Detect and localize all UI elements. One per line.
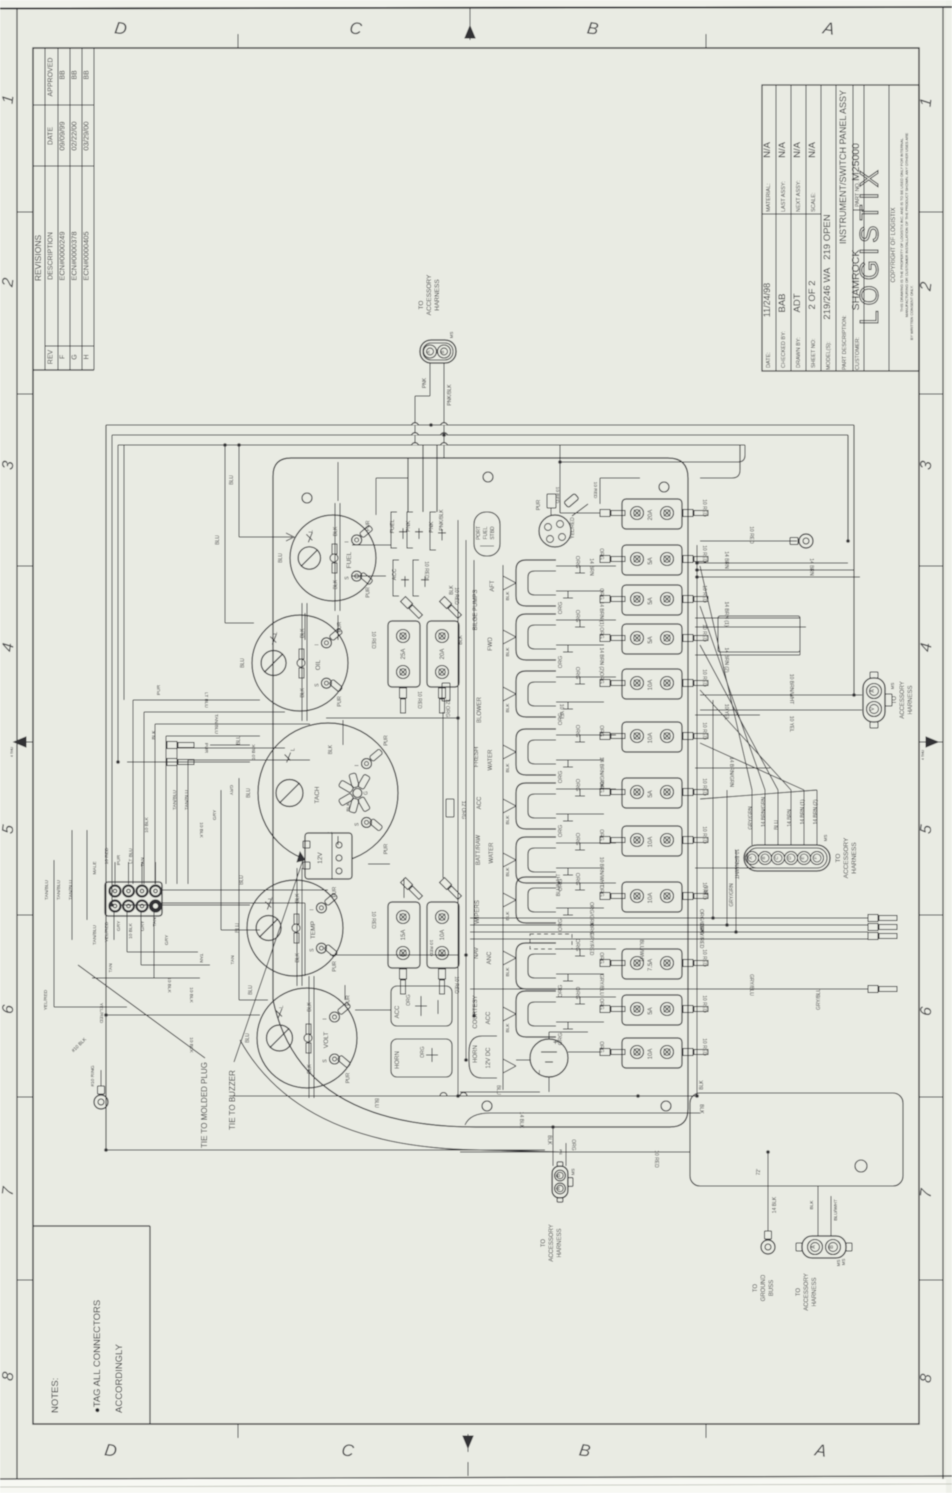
svg-text:ORG: ORG — [574, 610, 580, 623]
svg-text:10A: 10A — [648, 733, 654, 744]
notes box frame — [33, 1226, 150, 1424]
svg-text:TAN/BLU: TAN/BLU — [184, 790, 190, 810]
svg-text:GRY/GRN: GRY/GRN — [729, 883, 735, 907]
border centerline arrow bottom — [463, 1436, 473, 1448]
left harness horizontal stubs — [133, 700, 310, 760]
wire PNK from top connector — [415, 363, 430, 445]
6-pin connector wire labels — [748, 797, 828, 842]
wire 10 RED at CB7 — [598, 778, 707, 796]
circuit breaker 10A lower pair — [427, 878, 462, 994]
svg-text:ORG: ORG — [598, 588, 604, 600]
svg-text:FUEL: FUEL — [390, 519, 396, 533]
svg-text:N/A: N/A — [762, 141, 773, 158]
svg-text:TO: TO — [418, 301, 425, 310]
gauge TACH — [246, 723, 398, 863]
wire from loop to breaker CB1 — [560, 500, 600, 513]
svg-text:BUSS: BUSS — [769, 1280, 775, 1296]
svg-text:TO: TO — [892, 696, 898, 705]
svg-text:L: L — [290, 748, 296, 751]
svg-text:BLU: BLU — [248, 985, 254, 995]
svg-text:10 RED: 10 RED — [701, 669, 707, 687]
title block CHECKED BY cell — [777, 293, 788, 368]
zone tick marks — [17, 211, 33, 213]
svg-text:BLU/WHT: BLU/WHT — [833, 1199, 839, 1221]
svg-text:A: A — [821, 18, 836, 39]
svg-text:N/A: N/A — [807, 141, 818, 158]
svg-text:BLK: BLK — [333, 526, 339, 536]
svg-text:ORG: ORG — [558, 656, 564, 669]
svg-text:14 BRN (2): 14 BRN (2) — [723, 647, 729, 672]
wire 10 RED at CB3 — [598, 585, 707, 603]
svg-text:10 BRN/WHT: 10 BRN/WHT — [598, 857, 604, 887]
circuit breaker CB9 10A — [600, 882, 708, 912]
svg-text:TAN: TAN — [230, 955, 236, 965]
title block DRAWN BY cell — [792, 293, 803, 368]
bottom wire 14 BLK — [465, 1104, 704, 1129]
svg-text:PORT: PORT — [476, 526, 482, 540]
svg-text:ACCESSORY: ACCESSORY — [426, 274, 433, 315]
svg-text:MS: MS — [449, 332, 454, 339]
svg-text:ORG: ORG — [406, 994, 412, 1006]
title block copyright text — [891, 132, 914, 340]
svg-text:14 BRN: 14 BRN — [787, 809, 793, 827]
svg-text:FUEL: FUEL — [483, 526, 489, 539]
wire CB1 feed 10 RED — [592, 478, 640, 504]
molded plug wire labels upper — [44, 847, 146, 900]
switch function label FRESH WATER — [474, 747, 494, 771]
svg-text:10 RED: 10 RED — [701, 826, 707, 844]
svg-text:HORN: HORN — [473, 1045, 479, 1063]
svg-text:5A: 5A — [648, 597, 654, 604]
svg-text:HORN: HORN — [395, 1051, 401, 1069]
gauge OIL — [240, 603, 348, 721]
title block frame — [762, 85, 919, 371]
svg-text:D: D — [103, 1440, 118, 1461]
wire labels TAN/BLU GRY — [144, 684, 234, 838]
accessory ACC box — [391, 986, 452, 1026]
svg-text:HARNESS: HARNESS — [908, 685, 914, 714]
svg-text:TEMP: TEMP — [310, 921, 317, 939]
leader TIE TO BUZZER — [228, 852, 305, 1130]
svg-text:10A: 10A — [648, 1049, 654, 1060]
svg-text:BY WRITTEN CONSENT ONLY.: BY WRITTEN CONSENT ONLY. — [910, 285, 914, 340]
bottom 2-pin connector label — [541, 1224, 563, 1262]
feeder wires from top loop to inline connectors — [408, 445, 437, 512]
svg-text:PUR: PUR — [384, 843, 390, 854]
svg-text:E: E — [800, 856, 805, 859]
svg-text:ORG: ORG — [598, 829, 604, 841]
revision row F — [58, 70, 67, 359]
svg-text:10 RED: 10 RED — [104, 847, 110, 864]
svg-text:A: A — [813, 1440, 828, 1461]
svg-text:FRESH: FRESH — [474, 747, 480, 767]
gauge interconnect wires — [305, 462, 443, 1010]
svg-text:TAN: TAN — [152, 917, 158, 927]
svg-text:BLU: BLU — [704, 885, 710, 895]
svg-text:10 BRN/WHT: 10 BRN/WHT — [788, 674, 794, 704]
circuit breaker 20A left pair — [427, 597, 462, 713]
svg-text:TAN: TAN — [140, 857, 146, 867]
svg-text:CUSTOMER:: CUSTOMER: — [855, 337, 861, 370]
svg-text:10A: 10A — [648, 837, 654, 848]
svg-text:PNK: PNK — [406, 520, 412, 532]
svg-text:BLU/WHT: BLU/WHT — [556, 874, 562, 897]
svg-text:B: B — [440, 350, 445, 353]
svg-text:10 RED: 10 RED — [701, 722, 707, 740]
svg-text:PNK/BLK: PNK/BLK — [439, 509, 445, 531]
svg-text:14 BRN (1): 14 BRN (1) — [800, 799, 806, 824]
wire BLU into VOLT gauge — [106, 985, 260, 1015]
svg-text:PUR: PUR — [203, 743, 209, 754]
ignition switch lug — [560, 445, 579, 508]
svg-text:CHECKED BY:: CHECKED BY: — [781, 331, 787, 368]
circuit breaker 15A — [388, 878, 423, 994]
inline lugs on ORG feeders — [442, 683, 454, 817]
svg-text:PNK/BLK: PNK/BLK — [447, 384, 453, 406]
svg-text:TAN: TAN — [108, 963, 114, 973]
wire 10 RED at CB5 — [598, 669, 707, 687]
svg-text:FWD: FWD — [488, 637, 494, 651]
svg-text:−: − — [535, 1069, 544, 1074]
svg-text:WATER: WATER — [488, 749, 494, 771]
svg-text:14 BRN/GRN: 14 BRN/GRN — [598, 757, 604, 787]
revision row G — [70, 70, 79, 360]
svg-text:20A: 20A — [648, 510, 654, 521]
connector 2-pin right TO ACCESSORY HARNESS — [863, 672, 895, 728]
svg-text:TO: TO — [541, 1239, 547, 1248]
svg-text:10 BLK: 10 BLK — [144, 816, 150, 833]
svg-text:14 BRN: 14 BRN — [808, 558, 814, 576]
svg-text:MANUFACTURING OR CUSTOMER INST: MANUFACTURING OR CUSTOMER INSTALLATION O… — [905, 132, 909, 317]
svg-text:5A: 5A — [648, 557, 654, 564]
stadium label PORT FUEL STBD — [474, 512, 500, 556]
svg-text:TAN/BLU: TAN/BLU — [68, 880, 74, 900]
svg-text:BLK: BLK — [505, 911, 511, 921]
leader TIE TO MOLDED PLUG — [78, 965, 209, 1148]
svg-text:10 BLK: 10 BLK — [188, 1037, 194, 1054]
svg-text:BLU: BLU — [774, 820, 780, 830]
wires molded plug to regulator — [162, 890, 328, 976]
switch function label BATT/RAW WATER — [476, 835, 495, 866]
border centerline arrow right — [926, 737, 938, 747]
svg-text:5M: 5M — [558, 1149, 563, 1155]
svg-text:ORG: ORG — [558, 825, 564, 838]
svg-text:ORG: ORG — [598, 548, 604, 560]
dashed box GRY/RED above SW8 — [530, 934, 572, 949]
svg-text:L: L — [273, 632, 279, 635]
svg-text:BLK: BLK — [458, 635, 464, 645]
svg-text:PNK: PNK — [429, 521, 435, 533]
terminal lugs right stack — [868, 915, 897, 940]
svg-text:N/A: N/A — [777, 141, 788, 158]
svg-text:ADT: ADT — [792, 293, 803, 312]
switch SW3 blower — [516, 667, 616, 726]
svg-text:L: L — [279, 1005, 285, 1008]
svg-text:DATE:: DATE: — [766, 352, 772, 368]
svg-text:BLU: BLU — [373, 1098, 379, 1108]
loop left vertical wires — [106, 425, 124, 1150]
wire PNK/BLK from top connector — [444, 363, 453, 458]
svg-text:10A: 10A — [648, 893, 654, 904]
wire 10 RED at CB2 — [598, 545, 707, 563]
svg-text:2 OF 2: 2 OF 2 — [807, 280, 818, 309]
wire BLU into FUEL gauge — [229, 445, 294, 541]
svg-text:PNK: PNK — [422, 377, 428, 388]
svg-text:G: G — [72, 354, 79, 359]
svg-text:●TAG ALL CONNECTORS: ●TAG ALL CONNECTORS — [92, 1300, 103, 1413]
svg-text:THIS DRAWING IS THE PROPERTY O: THIS DRAWING IS THE PROPERTY OF LOGISTIX… — [900, 138, 904, 312]
wire BLU into TACH gauge — [127, 735, 248, 762]
wire 10 RED at CB1 — [701, 499, 707, 517]
svg-text:BATT/RAW: BATT/RAW — [476, 835, 482, 866]
svg-text:10 RED: 10 RED — [423, 561, 429, 579]
svg-text:4 THU: 4 THU — [10, 747, 14, 758]
svg-text:14 BRN/GRN: 14 BRN/GRN — [728, 757, 734, 787]
svg-text:VOLT: VOLT — [323, 1032, 330, 1049]
svg-text:TAN/BLU: TAN/BLU — [92, 925, 98, 945]
circuit breaker CB8 10A — [600, 826, 708, 856]
svg-text:ECN#0000405: ECN#0000405 — [82, 231, 91, 280]
switch SW1 bilge aft — [516, 556, 616, 615]
svg-text:ACC: ACC — [486, 1011, 492, 1024]
svg-text:COPYRIGHT OF LOGISTIX: COPYRIGHT OF LOGISTIX — [891, 208, 897, 283]
svg-text:ACC: ACC — [395, 1005, 401, 1018]
svg-text:10 RED: 10 RED — [370, 631, 376, 649]
svg-text:ORG: ORG — [598, 998, 604, 1010]
svg-text:BLK: BLK — [307, 1002, 313, 1012]
svg-text:YEL/RED: YEL/RED — [98, 1003, 104, 1024]
svg-text:ORG: ORG — [574, 556, 580, 569]
top connector label TO ACCESSORY HARNESS — [418, 274, 441, 315]
svg-text:ORG: ORG — [574, 725, 580, 738]
svg-text:PUR: PUR — [156, 684, 162, 695]
loop right corner wires down to breaker feed — [560, 445, 745, 500]
svg-text:ACCESSORY: ACCESSORY — [549, 1224, 555, 1262]
svg-text:BLK: BLK — [505, 763, 511, 773]
wire 10 BRN/WHT run — [556, 849, 775, 896]
connector top TO ACCESSORY HARNESS — [420, 332, 456, 363]
svg-text:APPROVED: APPROVED — [48, 58, 55, 97]
svg-text:10 RED: 10 RED — [701, 499, 707, 517]
svg-text:WIPERS: WIPERS — [475, 900, 481, 924]
wires TAN GRY up to gauges — [212, 778, 268, 1000]
title block PART NO cell — [850, 143, 862, 207]
molded plug wire labels lower — [92, 917, 170, 973]
notes text — [50, 1300, 125, 1413]
svg-text:BLK: BLK — [505, 1023, 511, 1033]
svg-text:L: L — [268, 897, 274, 900]
wire 10 BLK lower left — [106, 987, 545, 1150]
svg-text:BLK: BLK — [300, 687, 306, 697]
svg-text:10 YEL: 10 YEL — [723, 704, 729, 721]
svg-text:10 YEL: 10 YEL — [788, 716, 794, 733]
svg-text:TAN/BLU: TAN/BLU — [213, 714, 219, 734]
svg-text:I: I — [314, 644, 320, 645]
svg-text:10 RED: 10 RED — [701, 949, 707, 967]
svg-text:ORG: ORG — [598, 1041, 604, 1053]
svg-text:I: I — [345, 541, 351, 542]
switch SW10 horn wires — [516, 1059, 530, 1061]
wire 10 RED labels lower pair — [370, 911, 459, 994]
switch feeder wire BLK — [503, 565, 516, 1090]
svg-text:10A: 10A — [648, 680, 654, 691]
svg-text:TAN/BLU: TAN/BLU — [56, 880, 62, 900]
title block NEXT ASSY cell — [792, 141, 803, 212]
svg-text:10 BLK: 10 BLK — [198, 822, 204, 839]
vertical feeder 12 ORG third — [473, 560, 475, 1016]
svg-text:72': 72' — [756, 1169, 762, 1176]
svg-text:BLK: BLK — [698, 1104, 704, 1114]
svg-text:MS: MS — [841, 1259, 846, 1266]
horn label bracket — [469, 1036, 497, 1078]
svg-text:4 THU: 4 THU — [921, 750, 925, 761]
svg-text:10 RED: 10 RED — [592, 482, 598, 499]
revision row H — [82, 70, 91, 360]
svg-text:15A: 15A — [401, 930, 407, 941]
inline connector brackets PNK/BLK — [429, 509, 446, 550]
svg-text:12 ORG: 12 ORG — [460, 801, 466, 819]
svg-text:PUR: PUR — [366, 587, 372, 598]
svg-text:10 RED: 10 RED — [701, 545, 707, 563]
svg-text:BLK: BLK — [505, 591, 511, 601]
svg-text:REVISIONS: REVISIONS — [33, 235, 43, 282]
svg-text:BLU: BLU — [235, 923, 241, 933]
svg-text:14 BRN/GRN: 14 BRN/GRN — [761, 797, 767, 827]
svg-text:GRY/RED: GRY/RED — [698, 926, 704, 949]
svg-text:ACC: ACC — [477, 796, 483, 809]
BLK labels switch column — [505, 591, 511, 1033]
svg-text:DESCRIPTION: DESCRIPTION — [48, 232, 55, 280]
wire 10 RED at CB10 — [598, 949, 707, 967]
svg-text:BLK: BLK — [809, 1200, 815, 1210]
svg-text:10 RED: 10 RED — [416, 691, 422, 709]
svg-text:ECN#0000249: ECN#0000249 — [58, 231, 67, 280]
svg-text:TO: TO — [796, 1288, 802, 1297]
right side harness verticals — [848, 425, 854, 695]
svg-text:PUR: PUR — [346, 1072, 352, 1083]
wire BLU into OIL gauge — [215, 445, 254, 623]
svg-text:D: D — [113, 18, 128, 39]
svg-text:219/246 WA 219 OPEN: 219/246 WA 219 OPEN — [822, 214, 833, 319]
circuit breaker CB3 5A — [600, 585, 708, 615]
svg-text:A: A — [748, 856, 753, 859]
wire GRY/BLU run and lug — [470, 974, 897, 1010]
svg-text:TAN: TAN — [198, 953, 204, 963]
svg-text:BLU: BLU — [495, 1085, 501, 1095]
svg-text:MATERIAL:: MATERIAL: — [766, 183, 772, 212]
svg-text:F: F — [813, 856, 818, 859]
wire 10 RED at CB12 — [598, 1038, 707, 1056]
svg-text:BLU: BLU — [240, 658, 246, 668]
svg-text:GRY/RED: GRY/RED — [588, 933, 594, 956]
wire BLU into TEMP gauge — [120, 875, 250, 905]
svg-text:BLK: BLK — [699, 1080, 705, 1090]
circuit breaker CB1 20A — [600, 499, 708, 529]
svg-text:10 BLK: 10 BLK — [128, 922, 134, 939]
svg-text:BLU/WHT: BLU/WHT — [638, 940, 644, 963]
svg-text:20A: 20A — [440, 649, 446, 660]
svg-text:NOTES:: NOTES: — [50, 1378, 61, 1413]
svg-text:N/A: N/A — [792, 141, 803, 158]
svg-text:02/22/00: 02/22/00 — [70, 121, 79, 150]
svg-text:H: H — [84, 354, 91, 359]
connector 2-pin bottom right TO ACCESSORY HARNESS — [796, 1186, 852, 1266]
wire 10 RED at CB6 — [598, 722, 707, 740]
svg-text:5A: 5A — [648, 636, 654, 643]
svg-text:BLK: BLK — [505, 967, 511, 977]
svg-text:TIE TO MOLDED PLUG: TIE TO MOLDED PLUG — [200, 1062, 209, 1148]
svg-text:BLK: BLK — [505, 703, 511, 713]
bottom panel inner wire BLU — [230, 1093, 697, 1109]
svg-text:PUR: PUR — [116, 854, 122, 865]
svg-text:03/29/00: 03/29/00 — [82, 121, 91, 150]
svg-text:ORG: ORG — [574, 667, 580, 680]
svg-text:BB: BB — [60, 70, 67, 80]
svg-text:14 BRN: 14 BRN — [723, 551, 729, 569]
svg-text:TAN/BLU: TAN/BLU — [172, 790, 178, 810]
svg-text:BLK: BLK — [505, 867, 511, 877]
svg-text:BLU: BLU — [215, 535, 221, 545]
svg-text:I: I — [355, 765, 361, 766]
svg-text:STBD: STBD — [490, 526, 496, 540]
inline connector brackets FUEL PNK — [390, 512, 423, 548]
svg-text:HARNESS: HARNESS — [812, 1277, 818, 1306]
wire 10 RED bottom — [460, 1150, 690, 1168]
svg-text:11/24/98: 11/24/98 — [762, 283, 772, 317]
svg-text:GRY: GRY — [228, 785, 234, 796]
svg-text:14 BRN: 14 BRN — [588, 558, 594, 576]
horn symbol — [530, 1032, 600, 1077]
svg-text:BB: BB — [84, 70, 91, 80]
wire junction dots — [104, 423, 856, 1154]
svg-text:TO: TO — [753, 1284, 759, 1293]
junction box 14 BRN — [718, 616, 800, 652]
svg-text:10 RED: 10 RED — [653, 1150, 659, 1168]
svg-text:ORG: ORG — [574, 833, 580, 846]
svg-text:25A: 25A — [401, 649, 407, 660]
circuit breaker CB7 5A — [600, 778, 708, 808]
svg-text:I: I — [323, 1018, 329, 1019]
svg-text:BLK: BLK — [151, 730, 157, 740]
svg-text:ORG: ORG — [598, 672, 604, 684]
svg-text:5A: 5A — [648, 790, 654, 797]
svg-text:BLK: BLK — [295, 893, 301, 903]
circuit breaker CB4 5A — [600, 624, 708, 654]
svg-text:MS: MS — [823, 835, 828, 842]
svg-text:L: L — [308, 530, 314, 533]
svg-text:14 BLK: 14 BLK — [518, 1112, 524, 1129]
revisions table header row — [48, 58, 55, 365]
ring terminal TO GROUND BUSS — [756, 1152, 778, 1254]
svg-text:INSTRUMENT/SWITCH PANEL ASSY: INSTRUMENT/SWITCH PANEL ASSY — [838, 90, 848, 244]
svg-text:ORG: ORG — [598, 952, 604, 964]
svg-text:TIE TO BUZZER: TIE TO BUZZER — [228, 1070, 237, 1130]
6-pin connector label TO ACCESSORY HARNESS — [835, 837, 858, 878]
wire bundle 14 BRN — [588, 551, 860, 577]
svg-text:HARNESS: HARNESS — [557, 1228, 563, 1257]
voltage regulator 12V block — [303, 833, 352, 879]
svg-text:TAN/BLU: TAN/BLU — [44, 880, 50, 900]
ring terminal #10 RING — [71, 1036, 108, 1109]
svg-text:TACH: TACH — [314, 786, 321, 804]
switch SW6 batt raw water — [516, 833, 616, 892]
svg-text:GROUND: GROUND — [761, 1274, 767, 1301]
title block CUSTOMER cell — [850, 250, 862, 370]
svg-text:PUR: PUR — [384, 735, 390, 746]
wire stub ignition to panel — [554, 487, 588, 516]
svg-text:PUR: PUR — [536, 499, 542, 510]
svg-text:I: I — [309, 909, 315, 910]
